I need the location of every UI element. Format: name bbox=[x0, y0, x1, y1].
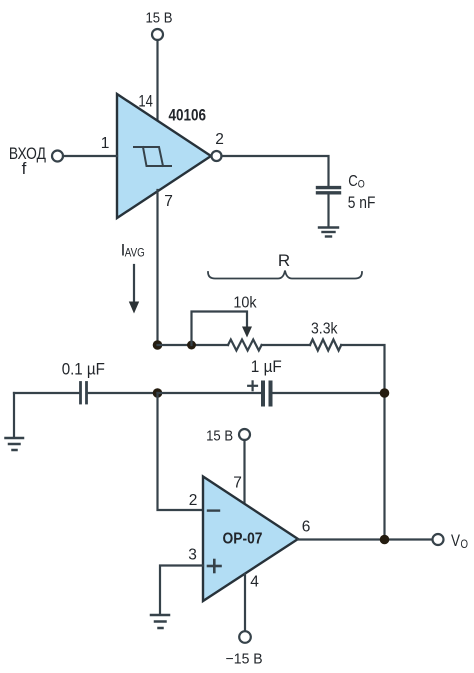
svg-text:3: 3 bbox=[188, 547, 197, 564]
svg-text:7: 7 bbox=[164, 193, 173, 210]
capacitor 1 µF (polarized) bbox=[248, 358, 282, 405]
wire: 3.3k right corner down to output node bbox=[341, 345, 384, 540]
wire: node A down to op-amp pin 2 bbox=[158, 393, 204, 510]
wire: 15 В terminal to op-amp pin 7 bbox=[243, 440, 245, 504]
wiper wire of 10k bbox=[192, 312, 248, 346]
svg-text:0.1 µF: 0.1 µF bbox=[62, 361, 105, 379]
wire: 1 µF to node C bbox=[273, 392, 385, 394]
input terminal ВХОД f bbox=[9, 144, 63, 178]
inverter U1 40106 (Schmitt trigger) bbox=[117, 94, 211, 218]
svg-text:15 В: 15 В bbox=[146, 11, 173, 27]
svg-text:4: 4 bbox=[250, 574, 259, 591]
node D: junction dot (output / feedback) bbox=[380, 535, 390, 545]
op-amp U2 OP-07 bbox=[203, 477, 298, 602]
minus sign at pin 2 bbox=[208, 509, 219, 511]
wire: input terminal to U1 pin 1 bbox=[63, 155, 117, 157]
svg-text:1: 1 bbox=[101, 135, 110, 152]
ground (op-amp pin 3) bbox=[151, 615, 169, 628]
svg-text:14: 14 bbox=[138, 93, 153, 111]
wire: Co to ground bbox=[327, 193, 329, 227]
potentiometer 10k (rheostat) bbox=[228, 295, 262, 351]
wire: 0.1 µF to node B bbox=[88, 392, 158, 394]
svg-text:2: 2 bbox=[189, 492, 198, 509]
inverting bubble at U1 output bbox=[212, 151, 222, 161]
node A: junction dot (pin7 line / R network) bbox=[153, 340, 163, 350]
svg-text:2: 2 bbox=[215, 131, 224, 148]
svg-text:3.3k: 3.3k bbox=[311, 321, 338, 338]
svg-text:1 µF: 1 µF bbox=[251, 358, 282, 376]
wiper arrowhead bbox=[242, 327, 252, 338]
wire: left ground branch to 0.1 µF bbox=[14, 392, 79, 394]
svg-text:OP-07: OP-07 bbox=[223, 531, 263, 548]
node B: junction dot (vertical line / 1 µF line) bbox=[153, 388, 163, 398]
svg-text:6: 6 bbox=[302, 519, 311, 536]
svg-text:ВХОД: ВХОД bbox=[9, 144, 46, 163]
wire: op-amp output pin 6 to Vo bbox=[298, 538, 433, 540]
ground (below Co) bbox=[319, 228, 338, 237]
label R with brace over resistors bbox=[208, 251, 362, 279]
svg-text:15 В: 15 В bbox=[206, 429, 233, 445]
junction dot (10k wiper tie) bbox=[187, 341, 196, 350]
svg-text:−15 В: −15 В bbox=[226, 652, 263, 668]
wire: op-amp pin 3 to ground bbox=[160, 566, 203, 614]
label IAVG with arrow bbox=[121, 241, 145, 314]
svg-text:AVG: AVG bbox=[125, 248, 145, 260]
wire: left end down to ground bbox=[13, 393, 15, 436]
capacitor Co 5 nF bbox=[318, 188, 340, 193]
svg-text:V: V bbox=[451, 531, 461, 550]
wire: 10k to 3.3k bbox=[262, 344, 310, 346]
node C: junction dot (feedback line / 1 µF line) bbox=[380, 388, 390, 398]
svg-text:f: f bbox=[22, 159, 27, 178]
wire: node A to 10k bbox=[158, 344, 229, 346]
svg-text:O: O bbox=[461, 539, 469, 551]
svg-text:C: C bbox=[348, 173, 358, 190]
svg-text:5 nF: 5 nF bbox=[348, 193, 376, 212]
svg-text:7: 7 bbox=[233, 475, 242, 492]
svg-text:R: R bbox=[278, 251, 290, 270]
output terminal Vo bbox=[433, 531, 469, 551]
wire: op-amp pin 4 to −15 В terminal bbox=[244, 574, 246, 631]
svg-text:O: O bbox=[358, 179, 365, 191]
wire: 15 В terminal to 40106 pin 14 bbox=[156, 40, 158, 121]
wire: U1 pin 7 down to summing node bbox=[156, 190, 158, 345]
wire: U1 pin 2 output to Co bbox=[222, 156, 329, 185]
svg-text:40106: 40106 bbox=[169, 107, 207, 125]
capacitor 0.1 µF bbox=[62, 361, 105, 404]
power terminal −15 В (op-amp pin 4 supply) bbox=[226, 631, 263, 667]
ground (left, 0.1 µF) bbox=[6, 438, 24, 450]
svg-text:10k: 10k bbox=[233, 295, 257, 312]
hysteresis symbol inside U1 bbox=[134, 147, 171, 166]
wire: node B to 1 µF bbox=[158, 392, 261, 394]
power terminal 15 В (op-amp pin 7 supply) bbox=[206, 429, 250, 445]
resistor 3.3k bbox=[310, 321, 341, 351]
power terminal 15 В (top, 40106 pin 14 supply) bbox=[146, 11, 173, 41]
plus sign at pin 3 bbox=[208, 560, 221, 572]
